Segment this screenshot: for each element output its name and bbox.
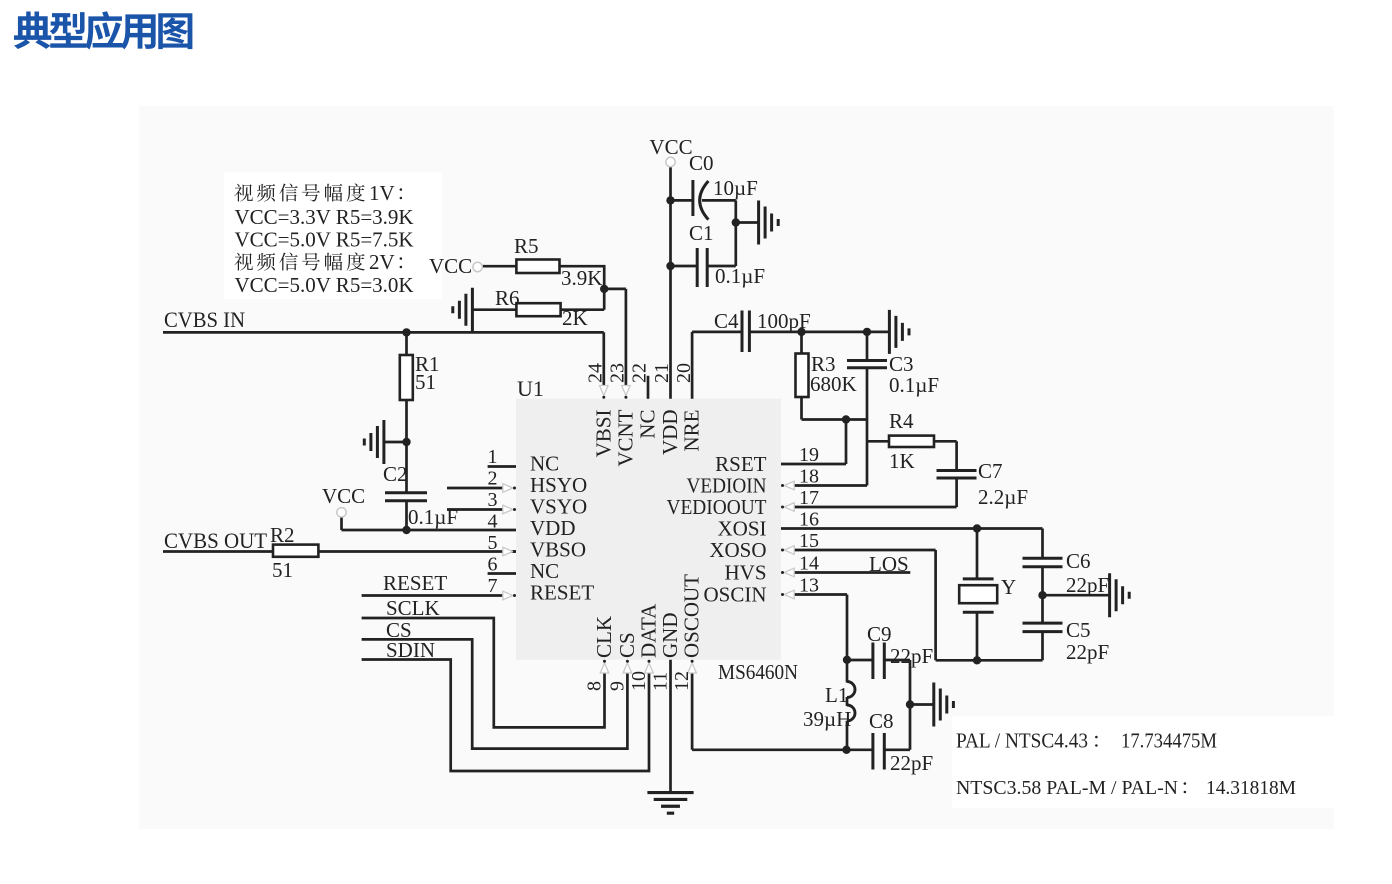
svg-text:HSYO: HSYO [530,473,587,497]
svg-text:10: 10 [628,671,650,691]
svg-text:0.1µF: 0.1µF [408,505,458,529]
svg-text:1: 1 [488,446,498,468]
svg-text:0.1µF: 0.1µF [889,373,939,397]
svg-text:VEDIOIN: VEDIOIN [687,474,767,498]
svg-text:VCC=5.0V R5=7.5K: VCC=5.0V R5=7.5K [235,228,414,252]
svg-text:2: 2 [488,468,498,490]
svg-text:0.1µF: 0.1µF [715,264,765,288]
svg-text:3: 3 [488,489,498,511]
svg-text:18: 18 [799,466,819,488]
svg-text:NRE: NRE [680,410,704,452]
svg-text:C9: C9 [867,622,892,646]
svg-text:R5: R5 [514,234,539,258]
svg-text:22pF: 22pF [890,751,933,775]
svg-text:22pF: 22pF [890,644,933,668]
svg-text:L1: L1 [825,683,848,707]
svg-text:CLK: CLK [592,616,616,658]
svg-text:C7: C7 [978,459,1003,483]
svg-text:R2: R2 [270,523,295,547]
svg-text:6: 6 [488,554,498,576]
svg-text:CVBS IN: CVBS IN [164,307,245,332]
svg-text:VCC=3.3V R5=3.9K: VCC=3.3V R5=3.9K [235,205,414,229]
svg-text:VBSI: VBSI [591,410,615,458]
svg-text:VEDIOOUT: VEDIOOUT [667,495,767,519]
svg-text:4: 4 [488,511,498,533]
svg-text:CS: CS [615,632,639,658]
svg-text:1K: 1K [889,449,915,473]
svg-text:22pF: 22pF [1066,640,1109,664]
svg-text:OSCOUT: OSCOUT [680,574,704,658]
svg-text:OSCIN: OSCIN [703,583,766,607]
svg-text:23: 23 [607,363,629,383]
svg-text:VCC: VCC [429,254,472,278]
svg-text:13: 13 [799,575,819,597]
svg-text:VSYO: VSYO [530,495,587,519]
svg-text:9: 9 [606,681,628,691]
svg-text:SDIN: SDIN [386,638,435,662]
svg-text:C4: C4 [714,309,739,333]
svg-text:15: 15 [799,530,819,552]
svg-text:22pF: 22pF [1066,573,1109,597]
svg-text:1V: 1V [369,181,395,205]
svg-text:8: 8 [584,681,606,691]
svg-text:GND: GND [658,613,682,659]
svg-text:Y: Y [1001,575,1016,599]
svg-text:R4: R4 [889,409,914,433]
svg-text:12: 12 [671,671,693,691]
svg-text:VCC: VCC [322,484,365,508]
svg-text:RESET: RESET [383,571,447,595]
svg-text:NTSC3.58 PAL-M / PAL-N: NTSC3.58 PAL-M / PAL-N [956,777,1178,799]
svg-text:39µH: 39µH [803,707,851,731]
svg-text:2.2µF: 2.2µF [978,485,1028,509]
svg-text:MS6460N: MS6460N [718,660,798,684]
svg-text:RESET: RESET [530,581,594,605]
svg-text:NC: NC [636,410,660,439]
svg-text:LOS: LOS [869,552,909,576]
svg-text:PAL / NTSC4.43: PAL / NTSC4.43 [956,729,1088,753]
svg-text:C1: C1 [689,221,714,245]
svg-text:2V: 2V [369,250,395,274]
svg-text:100pF: 100pF [757,309,811,333]
svg-text:NC: NC [530,559,559,583]
svg-text:C5: C5 [1066,618,1091,642]
svg-text:VDD: VDD [658,410,682,456]
svg-text:VCC=5.0V R5=3.0K: VCC=5.0V R5=3.0K [235,273,414,297]
svg-text:U1: U1 [517,376,544,401]
svg-text:11: 11 [650,672,672,691]
svg-text:DATA: DATA [637,603,661,658]
svg-text:17.734475M: 17.734475M [1121,729,1217,753]
svg-text:VCC: VCC [649,135,692,159]
svg-text:51: 51 [272,558,293,582]
svg-text:51: 51 [415,370,436,394]
svg-text:CVBS OUT: CVBS OUT [164,528,268,553]
svg-text:C0: C0 [689,151,714,175]
svg-text:17: 17 [799,487,819,509]
svg-text:3.9K: 3.9K [561,266,602,290]
svg-text:SCLK: SCLK [386,596,440,620]
svg-text:C2: C2 [383,462,408,486]
svg-text:RSET: RSET [715,452,767,476]
svg-text:14: 14 [799,553,819,575]
svg-text:NC: NC [530,452,559,476]
svg-text:XOSO: XOSO [709,538,766,562]
svg-text:R6: R6 [495,286,520,310]
svg-text:14.31818M: 14.31818M [1206,777,1296,799]
svg-text:C6: C6 [1066,549,1091,573]
svg-text:XOSI: XOSI [717,517,766,541]
svg-text:680K: 680K [810,372,857,396]
svg-text:16: 16 [799,509,819,531]
svg-text:VBSO: VBSO [530,538,586,562]
svg-text:21: 21 [651,363,673,383]
svg-text:20: 20 [673,363,695,383]
svg-text:2K: 2K [562,306,588,330]
svg-text:24: 24 [585,363,607,383]
svg-text:C8: C8 [869,709,894,733]
svg-text:10µF: 10µF [713,176,758,200]
svg-text:5: 5 [488,532,498,554]
svg-text:VDD: VDD [530,516,576,540]
svg-text:19: 19 [799,444,819,466]
svg-text:VCNT: VCNT [613,409,637,466]
svg-text:7: 7 [488,575,498,597]
svg-text:HVS: HVS [724,561,766,585]
svg-text:22: 22 [629,363,651,383]
